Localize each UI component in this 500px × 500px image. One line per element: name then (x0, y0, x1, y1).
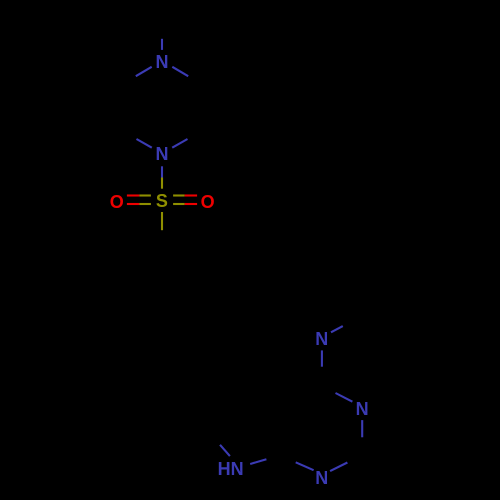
bond N1-C2 (N half) (137, 139, 152, 148)
bond N3-C2 (N half) (361, 420, 363, 437)
bond N10-C4 (N half) (321, 350, 323, 366)
svg-text:O: O (110, 192, 124, 212)
svg-text:S: S (156, 191, 168, 211)
bond N1-C6 (N half) (172, 139, 187, 148)
bond C2-N1 (N half) (330, 463, 347, 472)
bond C4-N3 (N half) (336, 393, 353, 402)
svg-text:N: N (315, 468, 328, 488)
bond S=O2 line1 (S half) (173, 194, 185, 196)
bond S=O2 line2 (O half) (185, 203, 197, 205)
bond N4-C5 (N half) (172, 67, 188, 76)
svg-text:N: N (156, 144, 169, 164)
bond S=O1 line1 (O half) (127, 194, 139, 196)
bond S-CH3 (S half) (161, 212, 163, 230)
bond N1-S (S half) (161, 178, 163, 189)
bond S=O1 line2 (S half) (139, 203, 151, 205)
bond S=O2 line2 (S half) (173, 203, 185, 205)
bond S=O2 line1 (O half) (185, 194, 197, 196)
bond S=O1 line2 (O half) (127, 203, 139, 205)
bond C7a-N7 (N half) (250, 459, 266, 464)
bond S=O1 line1 (S half) (139, 194, 151, 196)
bond N1-C7a (N half) (296, 462, 314, 470)
svg-text:N: N (156, 52, 169, 72)
bond N7-C6 (N half) (220, 445, 230, 456)
svg-text:N: N (315, 329, 328, 349)
bond N4-C3 (N half) (136, 67, 152, 76)
svg-text:N: N (356, 399, 369, 419)
svg-text:O: O (201, 192, 215, 212)
svg-text:HN: HN (218, 459, 244, 479)
bond N1-S (N half) (161, 166, 163, 177)
bond N4-CH3 (N half) (161, 39, 163, 50)
bond N10-CH3 (N half) (331, 326, 343, 332)
